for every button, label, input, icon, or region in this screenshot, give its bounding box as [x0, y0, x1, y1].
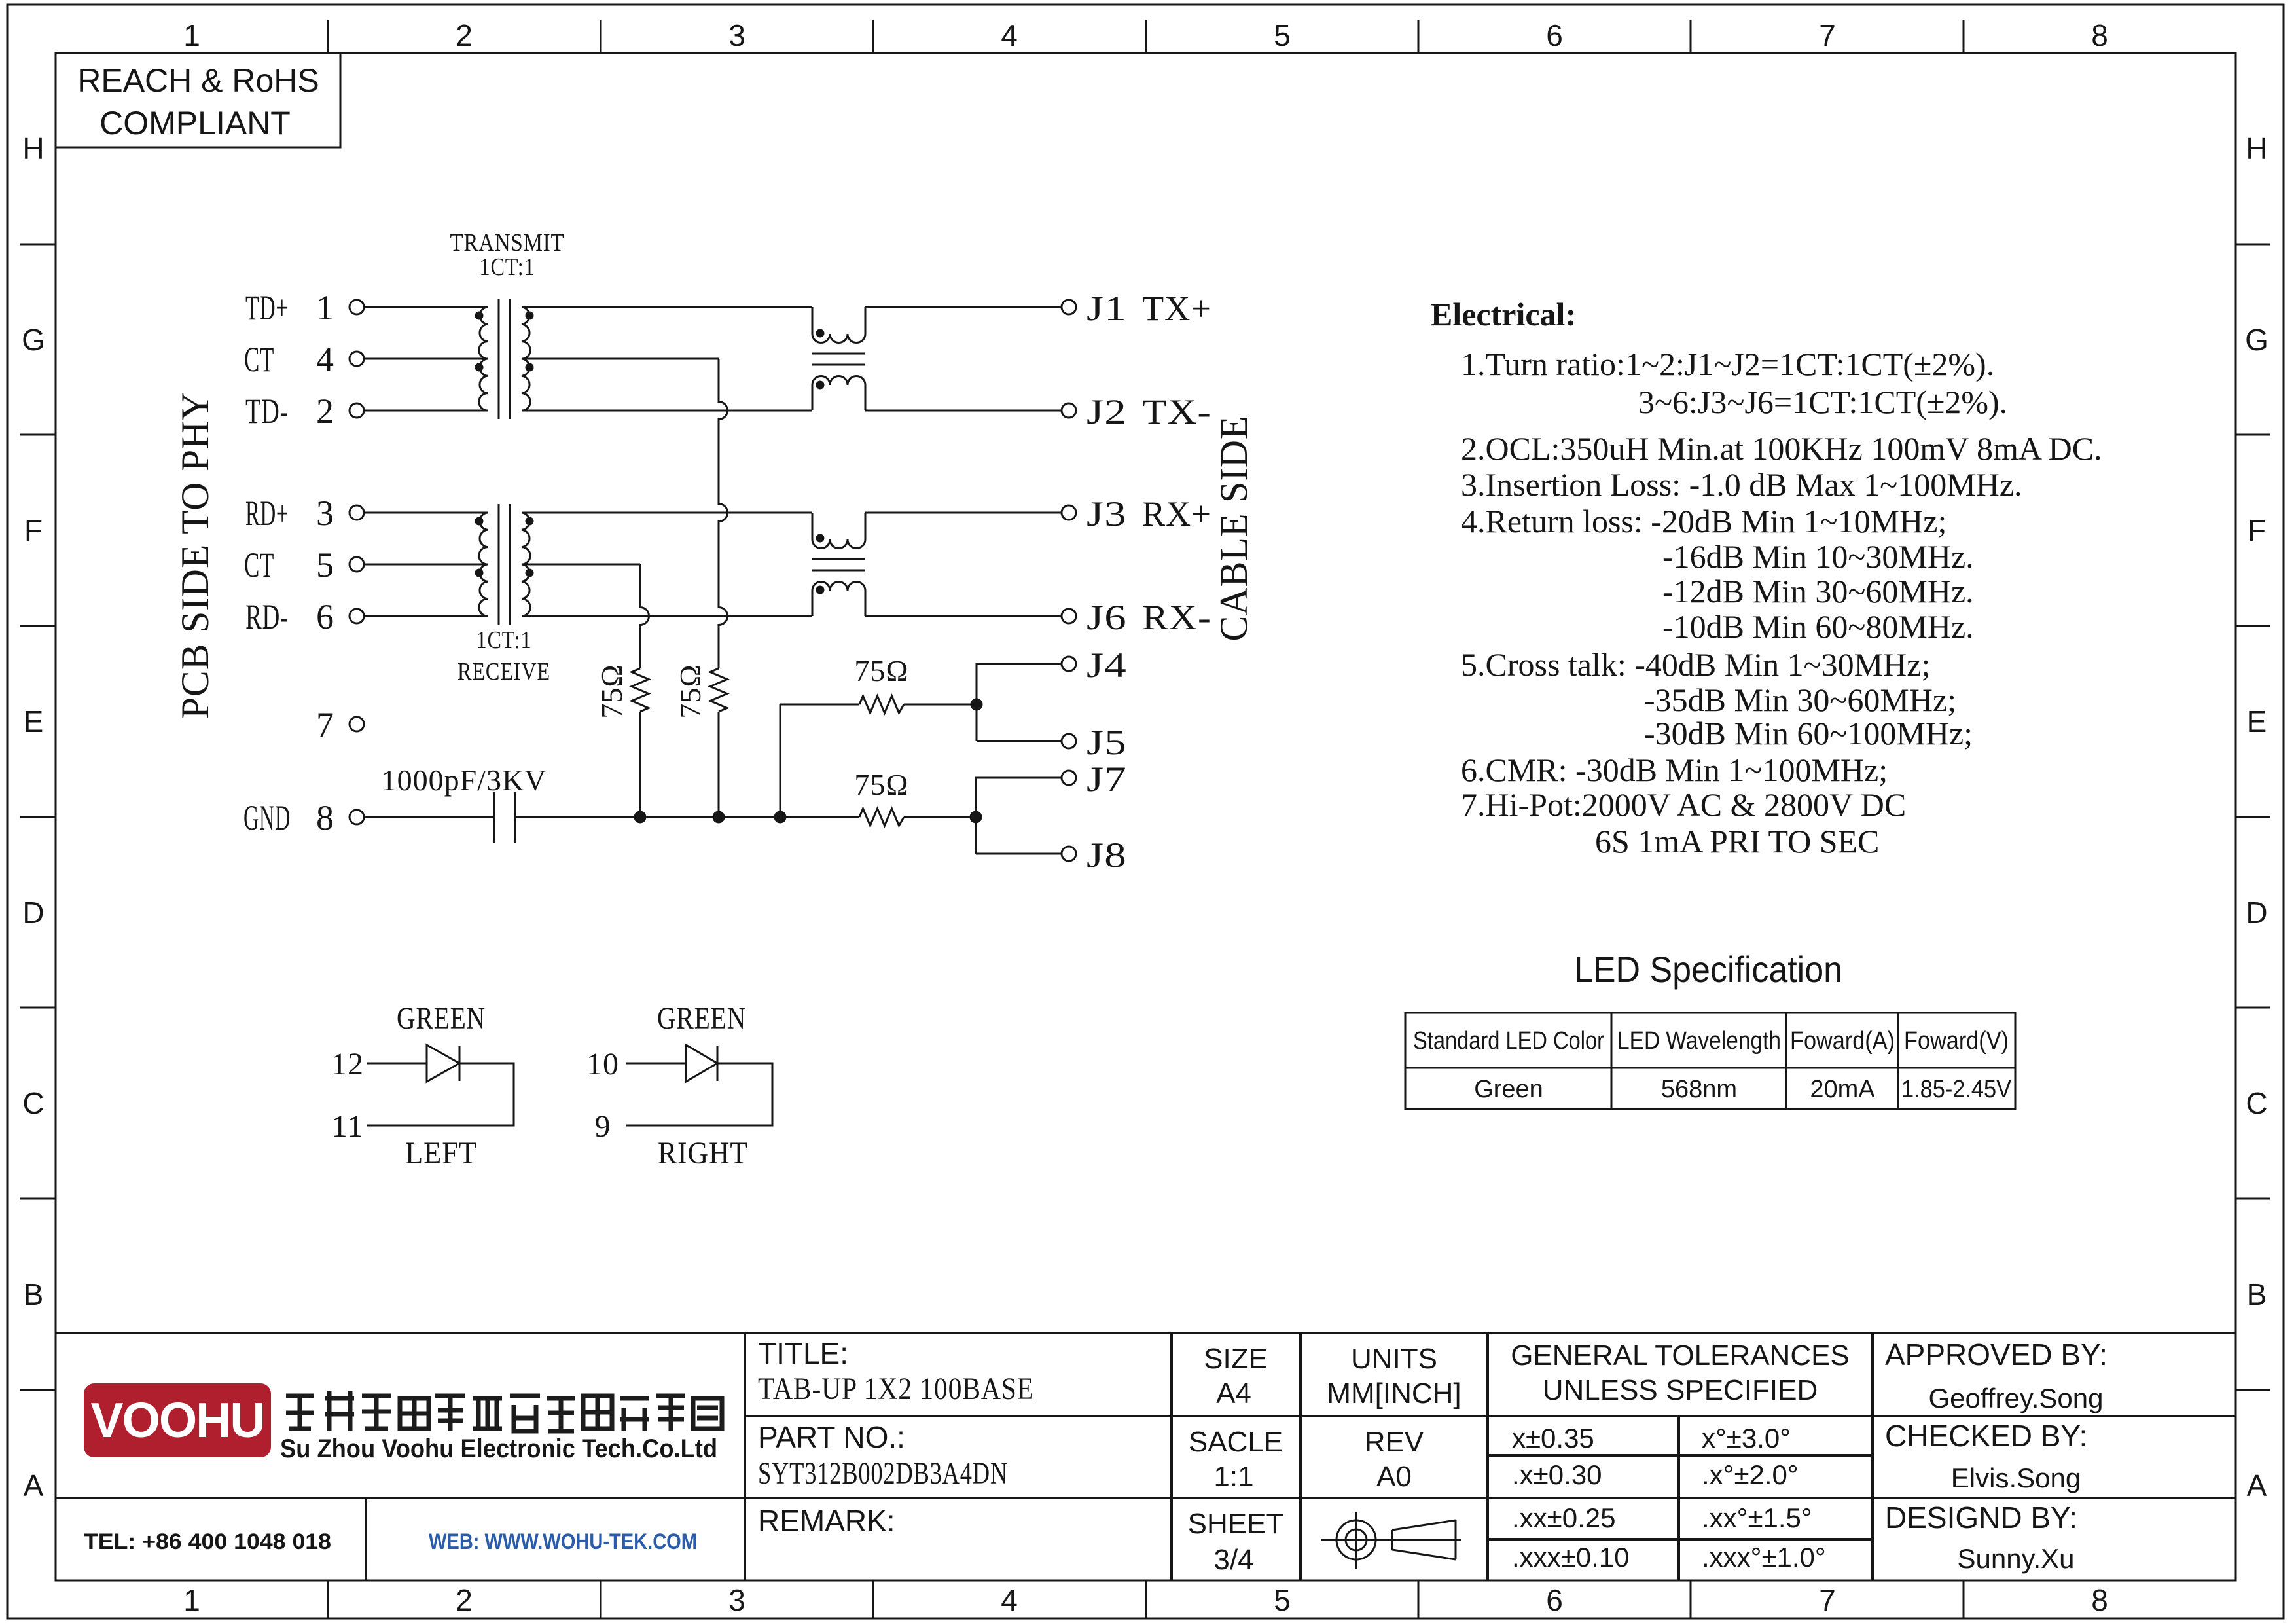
svg-text:TD-: TD- — [245, 392, 289, 431]
svg-text:Standard LED Color: Standard LED Color — [1413, 1027, 1604, 1055]
schematic labels — [173, 229, 1255, 875]
svg-text:.xx±0.25: .xx±0.25 — [1512, 1503, 1615, 1533]
LED D1 cathode wire — [367, 1063, 514, 1125]
svg-text:H: H — [2246, 132, 2267, 166]
transformer T1 core — [499, 299, 510, 419]
svg-text:DESIGND BY:: DESIGND BY: — [1885, 1501, 2077, 1535]
svg-text:Elvis.Song: Elvis.Song — [1951, 1463, 2081, 1493]
J7/J8 branch — [976, 778, 1062, 854]
svg-text:LEFT: LEFT — [405, 1136, 477, 1171]
projection symbol — [1321, 1512, 1461, 1569]
svg-text:8: 8 — [2091, 1583, 2108, 1617]
svg-text:E: E — [24, 704, 44, 739]
svg-text:RD+: RD+ — [245, 494, 289, 533]
wire pin5 to T2 tap — [364, 564, 488, 566]
svg-text:1000pF/3KV: 1000pF/3KV — [382, 763, 547, 797]
J4/J5 branch — [977, 664, 1062, 741]
T2 dots — [475, 517, 484, 526]
wire CMC2 to J3 — [865, 512, 1062, 514]
common-mode choke CMC1 top winding — [812, 307, 865, 343]
svg-text:5: 5 — [1274, 1583, 1291, 1617]
svg-text:J5: J5 — [1086, 723, 1127, 762]
svg-text:Su Zhou Voohu Electronic Tech.: Su Zhou Voohu Electronic Tech.Co.Ltd — [280, 1434, 717, 1463]
svg-text:.xxx±0.10: .xxx±0.10 — [1512, 1542, 1629, 1573]
wire R4 to junction — [904, 816, 976, 818]
svg-text:CHECKED BY:: CHECKED BY: — [1885, 1419, 2087, 1453]
svg-text:4: 4 — [316, 340, 334, 379]
wire CMC1 to J2 — [865, 410, 1062, 412]
svg-text:TX-: TX- — [1142, 392, 1211, 431]
svg-text:RX+: RX+ — [1142, 494, 1211, 534]
svg-text:F: F — [24, 513, 43, 547]
svg-text:5: 5 — [1274, 18, 1291, 52]
LED D1 triangle — [427, 1045, 459, 1082]
svg-text:E: E — [2247, 704, 2267, 739]
svg-text:Sunny.Xu: Sunny.Xu — [1957, 1543, 2074, 1574]
LED D1 anode wire — [367, 1063, 427, 1065]
svg-text:LED Specification: LED Specification — [1574, 949, 1842, 990]
LED D1 cathode bar — [459, 1046, 461, 1081]
transformer T2 primary windings — [479, 513, 488, 616]
VOOHU logo — [84, 1383, 271, 1457]
SCHEMATIC — [350, 299, 1076, 861]
svg-text:6.CMR: -30dB Min 1~100MHz;: 6.CMR: -30dB Min 1~100MHz; — [1461, 752, 1888, 788]
svg-text:-16dB Min 10~30MHz.: -16dB Min 10~30MHz. — [1662, 538, 1974, 575]
junction dots on GND bus — [634, 811, 647, 824]
wire T2 CT tap — [522, 564, 640, 566]
J4 terminal — [1062, 657, 1076, 671]
svg-text:TX+: TX+ — [1142, 289, 1211, 328]
svg-text:3: 3 — [728, 18, 745, 52]
CMC2 dots — [816, 534, 825, 543]
wire pin3 to T2 — [364, 512, 488, 514]
title cells text — [758, 1336, 905, 1538]
wire CMC2 to J6 — [865, 615, 1062, 617]
LED D2 triangle — [686, 1045, 717, 1082]
company name chinese (pseudo glyphs) — [286, 1391, 722, 1431]
svg-text:TAB-UP 1X2 100BASE: TAB-UP 1X2 100BASE — [758, 1372, 1034, 1406]
svg-text:G: G — [22, 323, 45, 357]
J2 terminal — [1062, 403, 1076, 418]
svg-text:75Ω: 75Ω — [854, 768, 908, 801]
svg-text:4.Return loss: -20dB Min 1~10M: 4.Return loss: -20dB Min 1~10MHz; — [1461, 503, 1946, 539]
svg-text:3.Insertion Loss: -1.0 dB Max: 3.Insertion Loss: -1.0 dB Max 1~100MHz. — [1461, 466, 2022, 503]
svg-text:B: B — [2247, 1277, 2267, 1311]
wire T2 secondary bottom to CMC2 — [522, 615, 812, 617]
vertical net from T1 CT with hops — [719, 359, 728, 668]
svg-text:2: 2 — [456, 18, 473, 52]
wire pin4 to T1 tap — [364, 358, 488, 360]
T1 dots — [475, 312, 484, 320]
svg-text:-12dB Min 30~60MHz.: -12dB Min 30~60MHz. — [1662, 573, 1974, 610]
svg-text:CT: CT — [244, 545, 274, 585]
wire T1 secondary bottom to CMC1 — [522, 410, 812, 412]
svg-text:Foward(V): Foward(V) — [1904, 1027, 2009, 1055]
svg-text:B: B — [24, 1277, 44, 1311]
wire T1 secondary top to CMC1 — [522, 306, 812, 308]
LED D2 anode wire — [626, 1063, 686, 1065]
svg-text:7: 7 — [1819, 18, 1836, 52]
svg-text:11: 11 — [331, 1109, 364, 1144]
LED LEFT — [367, 1045, 514, 1125]
wire R2 to GND bus — [718, 712, 720, 817]
svg-text:F: F — [2248, 513, 2266, 547]
svg-text:9: 9 — [595, 1109, 611, 1144]
svg-text:1CT:1: 1CT:1 — [476, 627, 532, 654]
pin 3 terminal — [350, 505, 364, 520]
svg-text:TITLE:: TITLE: — [758, 1336, 848, 1370]
svg-text:J4: J4 — [1086, 646, 1127, 685]
svg-text:Foward(A): Foward(A) — [1790, 1027, 1895, 1055]
J1 terminal — [1062, 300, 1076, 314]
wire pin8 to capacitor — [364, 816, 494, 818]
polarity dots and junction dots — [475, 312, 983, 824]
svg-text:5.Cross talk: -40dB Min 1~30MH: 5.Cross talk: -40dB Min 1~30MHz; — [1461, 646, 1930, 683]
svg-text:SIZE: SIZE — [1204, 1343, 1268, 1375]
REACH_BOX — [56, 53, 340, 147]
svg-text:GENERAL TOLERANCES: GENERAL TOLERANCES — [1511, 1340, 1850, 1372]
svg-text:-10dB Min 60~80MHz.: -10dB Min 60~80MHz. — [1662, 608, 1974, 645]
svg-text:-30dB Min 60~100MHz;: -30dB Min 60~100MHz; — [1644, 715, 1973, 752]
svg-text:G: G — [2245, 323, 2269, 357]
svg-text:CT: CT — [244, 340, 274, 379]
LED D2 cathode wire — [626, 1063, 772, 1125]
junction dot R3 output — [971, 699, 983, 711]
common-mode choke CMC1 core — [812, 354, 865, 365]
svg-text:-35dB Min 30~60MHz;: -35dB Min 30~60MHz; — [1644, 682, 1956, 718]
wire to R3 — [780, 704, 859, 706]
resistor R4 75ohm horizontal body — [859, 809, 904, 826]
svg-text:8: 8 — [316, 798, 334, 837]
svg-text:6: 6 — [1546, 1583, 1563, 1617]
J5 terminal — [1062, 734, 1076, 748]
svg-text:6S 1mA PRI TO SEC: 6S 1mA PRI TO SEC — [1595, 823, 1879, 860]
svg-text:1CT:1: 1CT:1 — [480, 253, 535, 281]
svg-text:7: 7 — [316, 705, 334, 744]
LED D2 cathode bar — [717, 1046, 719, 1081]
svg-text:COMPLIANT: COMPLIANT — [99, 105, 291, 141]
svg-text:75Ω: 75Ω — [673, 664, 707, 718]
company name english — [280, 1434, 717, 1463]
svg-text:6: 6 — [1546, 18, 1563, 52]
svg-text:1: 1 — [316, 288, 334, 327]
wire pin1 to T1 — [364, 306, 488, 308]
wire T1 CT tap — [522, 358, 719, 360]
svg-text:REMARK:: REMARK: — [758, 1504, 895, 1538]
svg-text:TD+: TD+ — [245, 288, 289, 327]
wire pin6 to T2 — [364, 615, 488, 617]
svg-text:75Ω: 75Ω — [854, 654, 908, 687]
svg-text:VOOHU: VOOHU — [90, 1393, 264, 1448]
svg-text:RIGHT: RIGHT — [658, 1136, 748, 1171]
svg-text:x°±3.0°: x°±3.0° — [1702, 1423, 1791, 1453]
svg-text:APPROVED BY:: APPROVED BY: — [1885, 1338, 2108, 1372]
svg-text:A: A — [24, 1468, 44, 1503]
svg-text:RD-: RD- — [245, 597, 289, 636]
svg-text:GREEN: GREEN — [657, 1001, 746, 1036]
svg-text:10: 10 — [586, 1047, 619, 1082]
svg-text:UNITS: UNITS — [1351, 1343, 1437, 1375]
svg-text:1: 1 — [183, 18, 200, 52]
CMC1 dots — [816, 329, 825, 338]
svg-text:D: D — [22, 896, 44, 930]
LED SPECIFICATION TABLE — [1574, 949, 1842, 990]
svg-text:1.Turn ratio:1~2:J1~J2=1CT:1CT: 1.Turn ratio:1~2:J1~J2=1CT:1CT(±2%). — [1461, 346, 1994, 382]
svg-text:SACLE: SACLE — [1189, 1426, 1283, 1458]
svg-text:.x°±2.0°: .x°±2.0° — [1702, 1459, 1799, 1490]
pin 6 terminal — [350, 609, 364, 623]
pin 5 terminal — [350, 557, 364, 572]
transformer T2 core — [499, 504, 510, 625]
svg-text:7: 7 — [1819, 1583, 1836, 1617]
resistor R1 75ohm vertical body — [632, 668, 649, 712]
pin 2 terminal — [350, 403, 364, 418]
resistor R3 75ohm horizontal body — [859, 696, 904, 713]
svg-text:7.Hi-Pot:2000V AC & 2800V DC: 7.Hi-Pot:2000V AC & 2800V DC — [1461, 786, 1906, 823]
wire T2 secondary top to CMC2 — [522, 512, 812, 514]
svg-text:Green: Green — [1474, 1076, 1543, 1103]
svg-text:1.85-2.45V: 1.85-2.45V — [1901, 1076, 2012, 1103]
TITLE BLOCK GRID — [56, 1333, 2236, 1580]
svg-text:J3: J3 — [1086, 494, 1127, 534]
svg-text:J1: J1 — [1086, 289, 1127, 328]
svg-text:75Ω: 75Ω — [595, 664, 628, 718]
common-mode choke CMC1 bottom winding — [812, 376, 865, 411]
resistor R2 75ohm vertical body — [710, 668, 727, 712]
svg-text:A4: A4 — [1216, 1377, 1251, 1410]
svg-text:J6: J6 — [1086, 598, 1127, 637]
svg-text:H: H — [22, 132, 44, 166]
svg-text:J7: J7 — [1086, 759, 1127, 799]
wire pin2 to T1 — [364, 410, 488, 412]
approval column — [1885, 1338, 2108, 1574]
pin 8 terminal — [350, 810, 364, 824]
svg-text:SHEET: SHEET — [1188, 1508, 1284, 1540]
svg-text:LED Wavelength: LED Wavelength — [1617, 1027, 1781, 1055]
svg-text:CABLE SIDE: CABLE SIDE — [1212, 416, 1255, 642]
svg-text:RECEIVE: RECEIVE — [457, 658, 550, 685]
svg-text:1:1: 1:1 — [1213, 1461, 1253, 1493]
size/units columns — [1188, 1340, 1850, 1576]
svg-text:6: 6 — [316, 597, 334, 636]
svg-text:4: 4 — [1001, 18, 1018, 52]
svg-text:J8: J8 — [1086, 835, 1127, 875]
svg-text:REACH & RoHS: REACH & RoHS — [77, 62, 319, 99]
svg-text:x±0.35: x±0.35 — [1512, 1423, 1594, 1453]
common-mode choke CMC2 bottom winding — [812, 581, 865, 616]
svg-text:20mA: 20mA — [1810, 1076, 1875, 1103]
wire CMC1 to J1 — [865, 306, 1062, 308]
riser to R3 — [780, 704, 781, 817]
svg-text:J2: J2 — [1086, 392, 1127, 431]
svg-text:REV: REV — [1365, 1426, 1424, 1458]
svg-text:.xxx°±1.0°: .xxx°±1.0° — [1702, 1542, 1826, 1573]
svg-text:PCB SIDE TO PHY: PCB SIDE TO PHY — [173, 392, 217, 719]
pin 1 terminal — [350, 300, 364, 314]
ELECTRICAL NOTES — [1431, 296, 2102, 860]
svg-text:TRANSMIT: TRANSMIT — [450, 229, 565, 257]
TEL — [84, 1529, 697, 1554]
svg-text:A: A — [2247, 1468, 2267, 1503]
transformer T1 primary windings — [479, 307, 488, 410]
common-mode choke CMC2 core — [812, 559, 865, 570]
svg-text:D: D — [2246, 896, 2267, 930]
svg-text:2: 2 — [316, 392, 334, 431]
svg-text:2.OCL:350uH Min.at 100KHz 100m: 2.OCL:350uH Min.at 100KHz 100mV 8mA DC. — [1461, 430, 2102, 467]
svg-text:1: 1 — [183, 1583, 200, 1617]
pin 7 terminal — [350, 717, 364, 731]
transformer T2 secondary windings — [522, 513, 530, 616]
svg-text:3: 3 — [728, 1583, 745, 1617]
svg-text:C: C — [22, 1086, 44, 1120]
svg-text:Electrical:: Electrical: — [1431, 296, 1576, 333]
svg-text:3~6:J3~J6=1CT:1CT(±2%).: 3~6:J3~J6=1CT:1CT(±2%). — [1638, 384, 2007, 420]
svg-text:568nm: 568nm — [1661, 1076, 1737, 1103]
svg-text:RX-: RX- — [1142, 598, 1211, 637]
svg-text:A0: A0 — [1376, 1461, 1412, 1493]
pin 4 terminal — [350, 352, 364, 366]
svg-text:3: 3 — [316, 494, 334, 533]
J8 terminal — [1062, 847, 1076, 861]
J7 terminal — [1062, 771, 1076, 785]
svg-text:GND: GND — [243, 798, 291, 837]
svg-text:PART NO.:: PART NO.: — [758, 1420, 905, 1454]
svg-text:GREEN: GREEN — [397, 1001, 486, 1036]
svg-text:MM[INCH]: MM[INCH] — [1327, 1377, 1461, 1410]
wire R1 to GND bus — [639, 712, 641, 817]
tolerance values — [1512, 1423, 1826, 1573]
svg-text:12: 12 — [331, 1047, 364, 1082]
transformer T1 secondary windings — [522, 307, 530, 410]
svg-text:2: 2 — [456, 1583, 473, 1617]
svg-text:8: 8 — [2091, 18, 2108, 52]
svg-text:C: C — [2246, 1086, 2267, 1120]
J3 terminal — [1062, 505, 1076, 520]
svg-text:SYT312B002DB3A4DN: SYT312B002DB3A4DN — [758, 1456, 1008, 1491]
svg-text:UNLESS SPECIFIED: UNLESS SPECIFIED — [1543, 1374, 1818, 1406]
wire R3 to junction — [904, 704, 977, 706]
svg-text:5: 5 — [316, 545, 334, 585]
svg-text:WEB: WWW.WOHU-TEK.COM: WEB: WWW.WOHU-TEK.COM — [429, 1529, 697, 1554]
svg-text:4: 4 — [1001, 1583, 1018, 1617]
svg-text:.xx°±1.5°: .xx°±1.5° — [1702, 1503, 1812, 1533]
svg-text:.x±0.30: .x±0.30 — [1512, 1459, 1602, 1490]
J6 terminal — [1062, 609, 1076, 623]
svg-text:TEL: +86 400 1048 018: TEL: +86 400 1048 018 — [84, 1529, 331, 1554]
capacitor C1 1000pF plates — [494, 792, 515, 843]
vertical net from T2 CT with hop — [640, 564, 649, 668]
LED RIGHT — [626, 1045, 772, 1125]
svg-text:Geoffrey.Song: Geoffrey.Song — [1929, 1383, 2104, 1413]
svg-text:3/4: 3/4 — [1213, 1544, 1253, 1576]
GND bus wire — [515, 816, 859, 818]
common-mode choke CMC2 top winding — [812, 513, 865, 549]
